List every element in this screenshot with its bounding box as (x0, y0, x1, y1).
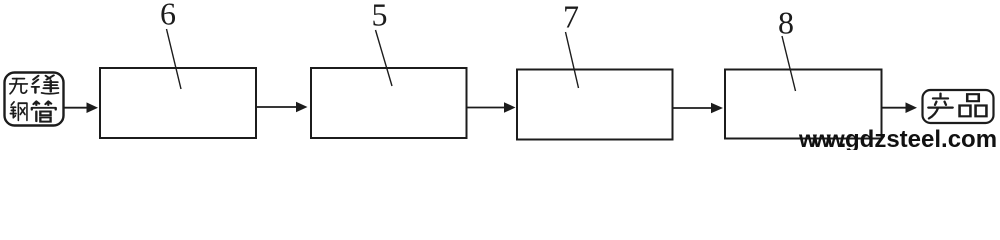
start terminal (seamless steel pipe) (5, 73, 64, 126)
process box 6 (100, 68, 256, 138)
svg-text:7: 7 (563, 0, 579, 35)
arrow start->box6 (64, 107, 87, 109)
arrow box7->box8 (673, 107, 712, 109)
label 钢 (gang) (10, 102, 27, 120)
svg-text:5: 5 (372, 0, 388, 33)
label 产 (chan) (928, 94, 952, 119)
process box 8 (725, 70, 882, 139)
svg-text:gdzsteel.com: gdzsteel.com (845, 126, 997, 150)
label 品 (pin) (960, 94, 987, 116)
label 无 (wu) (10, 79, 28, 94)
process box 5 (311, 68, 467, 138)
leader line 7 (566, 32, 579, 88)
process box 7 (517, 70, 673, 140)
arrow box6->box5 (257, 106, 297, 108)
product terminal (923, 90, 994, 123)
arrow box8->product (882, 107, 907, 109)
leader line 6 (167, 29, 182, 89)
label 缝 (feng) (32, 75, 58, 93)
arrow box5->box7 (467, 107, 505, 109)
label 管 (guan) (32, 101, 56, 121)
leader line 8 (782, 36, 796, 91)
svg-text:www.: www. (798, 126, 845, 150)
svg-text:8: 8 (778, 5, 794, 41)
leader line 5 (376, 30, 393, 86)
svg-text:6: 6 (160, 0, 176, 32)
